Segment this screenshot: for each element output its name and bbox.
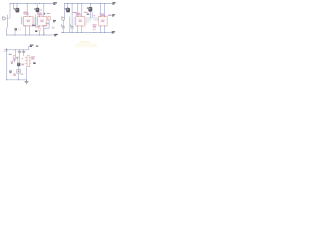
pink dot left of X1 mid BL <box>22 58 23 59</box>
resistor R3 TL right column <box>48 17 50 20</box>
capacitor C6 BL <box>16 57 18 58</box>
capacitor C4 BL <box>18 52 21 53</box>
wire vertical x18.6 to bottom BL <box>18 73 20 80</box>
pin dots U4 <box>100 16 105 26</box>
yellow smudge upper <box>79 41 90 43</box>
dark mark right of X1 <box>33 62 35 64</box>
source symbol V1 TL left <box>2 16 10 20</box>
pin stubs left of X1 <box>25 58 27 64</box>
wire vertical x63.2 lower TR <box>62 28 64 32</box>
transistor Q5 TL second blob <box>34 8 39 12</box>
wire vertical x14.4 below R5 BL <box>13 59 15 63</box>
text inside U3 <box>78 20 82 22</box>
label text pink mid-bottom TR <box>92 24 96 26</box>
label text pink right of Q2 <box>73 12 77 13</box>
text inside U2 <box>40 20 44 22</box>
text inside U1 <box>26 20 30 22</box>
pin stubs right of U2 <box>47 18 49 24</box>
wire vertical x90.5 TR <box>90 4 92 19</box>
capacitor C3 TR (plus mark) <box>70 25 74 28</box>
yellow smudge lower <box>75 44 98 48</box>
label text near R1 (pink) <box>23 24 28 27</box>
transistor Q3 TR <box>87 7 93 12</box>
ground symbol BL <box>25 80 29 84</box>
crystal / component box X1 BL (red vertical) <box>27 56 30 67</box>
wire bottom rail TL <box>7 34 54 36</box>
source symbol V2 TR left <box>61 16 64 20</box>
pin stubs between U3 and U4 <box>85 18 99 24</box>
wire vertical x37.2 TL <box>36 4 38 8</box>
transistor Q1 TL <box>14 8 19 13</box>
wire vertical x13 TL <box>12 4 14 10</box>
wire vertical x17.4 below C6 <box>16 59 18 63</box>
junction dots TR top rail <box>64 3 105 4</box>
wire vertical x7.3 from source down TL <box>6 15 8 28</box>
wire vertical x69.8 TR <box>69 17 71 33</box>
pink dot right of Q3 verticals <box>94 15 96 16</box>
transistor Q4 BL <box>17 63 20 67</box>
wire vertical x26.4 to bottom BL <box>25 67 27 80</box>
wire vertical x44 TL <box>43 4 45 17</box>
power flag TL bottom-right <box>54 34 58 36</box>
dark mark under R2 <box>35 30 37 32</box>
pink mark right of Y1 BL <box>21 74 23 75</box>
dark label left of Q3 verticals <box>87 14 90 15</box>
wire vertical x78 TR <box>77 4 79 17</box>
label text pink left of Q3 <box>84 12 88 13</box>
wire vertical x104.6 under U4 <box>104 26 106 33</box>
wire vertical x72 TR <box>71 4 73 27</box>
pin nubs right of X1 <box>30 58 31 64</box>
pink mark right of Q4 <box>21 64 24 66</box>
wire vertical x100.6 TR <box>100 4 102 17</box>
wire top rail BL <box>7 49 29 51</box>
wire vertical x25.5 under U1 <box>25 26 27 35</box>
label text U2 value (pink) above box U2 <box>37 13 42 16</box>
wire vertical x43.7 under U2 <box>43 26 45 35</box>
text inside U4 <box>101 20 105 22</box>
source symbol cross BL left <box>4 48 9 52</box>
pink label left of R5 <box>13 60 16 61</box>
wire vertical x17 TL <box>16 4 18 9</box>
small component blob TL mid-left <box>15 28 17 30</box>
junction dots TL top rail <box>9 3 44 4</box>
pin dots U2 <box>39 16 44 26</box>
wire vertical x82 TR <box>81 4 83 17</box>
IC box U4 TR <box>99 16 108 26</box>
label text U3 (pink) above box U3 <box>76 13 81 16</box>
IC box U3 TR <box>76 16 85 26</box>
small dark label right of BL flag <box>36 45 38 46</box>
wire vertical left x63 TR <box>62 20 64 26</box>
wire vertical x72.1 lower TR <box>71 28 73 32</box>
wire vertical x19.5 lower BL <box>19 53 21 63</box>
wire bus x21 down left of U1 <box>20 17 22 24</box>
wire vertical x64.5 TR <box>64 4 66 18</box>
capacitor C2 TR (plus mark) <box>61 25 65 28</box>
faint resistor hint TL <box>19 28 21 30</box>
label text above R2 (pink) <box>36 25 46 27</box>
wire top rail TL <box>10 3 53 5</box>
pink dot right of Q5 <box>40 9 42 10</box>
IC box U1 TL <box>24 16 33 26</box>
wire vertical x27 TL <box>26 4 28 17</box>
wire vertical x18.7 below Q4 BL <box>18 66 20 69</box>
wire vertical x77.4 under U3 <box>76 26 78 33</box>
wire left drop to bottom rail TL <box>6 28 8 36</box>
pin stubs left of U3 <box>73 18 75 24</box>
transistor Q2 TR <box>65 8 71 13</box>
faint label mark TL right column <box>52 27 55 29</box>
dark label under U1 <box>32 25 35 27</box>
wire bottom rail TR <box>62 32 112 34</box>
wire vertical x10 TL <box>9 4 11 19</box>
capacitor C5 BL <box>22 52 25 53</box>
wire vertical x23.5 lower BL <box>23 53 25 56</box>
wire vertical x49.1 right column TL <box>45 16 49 29</box>
junction dots BL top rail <box>15 49 24 50</box>
wire vertical x92.2 TR <box>91 12 93 17</box>
wire vertical x39.6 TL <box>39 14 41 17</box>
gray label above R5 BL <box>9 54 12 55</box>
resistor R5 BL <box>13 56 15 59</box>
junction dots TL bottom rail <box>6 34 44 35</box>
wire elbow right column to bottom TL <box>44 28 49 35</box>
junction dots TR bottom rail <box>61 32 105 33</box>
wire vertical x81.4 under U3 <box>80 26 82 33</box>
dark label left column BL <box>9 71 12 74</box>
power flag BL top <box>30 45 34 47</box>
wire vertical x15 to bottom rail TL <box>14 31 16 35</box>
IC box U2 TL <box>38 16 47 26</box>
wire vertical x15.3 BL <box>14 50 16 56</box>
wire vertical x100.6 under U4 <box>100 26 102 33</box>
resistor R4 TR <box>93 27 95 30</box>
label text U1 value (pink) above box U1 <box>23 12 29 15</box>
junction dots BL bottom rail <box>6 79 19 80</box>
power flag TR bottom-right <box>112 31 115 33</box>
wire riser to BL flag <box>29 46 30 49</box>
wire to mid flag TR <box>107 15 112 17</box>
dark label right of R3 <box>53 20 56 22</box>
power flag VCC TL top-right <box>53 2 57 5</box>
small dark label near U2 top <box>43 13 45 15</box>
wire vertical x39.3 to bottom rail TL <box>38 31 40 35</box>
label text U4 (pink) above box U4 <box>100 14 106 16</box>
pin dots U3 <box>77 16 82 26</box>
power flag mid TR <box>112 14 115 16</box>
wire top rail TR <box>65 3 113 5</box>
small component D1 BL <box>11 61 13 63</box>
pink marks lower-left BL <box>13 74 16 77</box>
resistor R2 TL (faint) <box>38 28 40 31</box>
pink text right of X1 <box>31 56 35 59</box>
wire vertical x104.6 TR <box>104 4 106 17</box>
wire vertical x35.3 gap TL <box>34 15 36 28</box>
small component Y1 BL <box>17 70 21 74</box>
label text above R3 right column (pink) <box>47 13 51 14</box>
wire vertical x23.5 BL <box>23 50 25 52</box>
wire vertical x19.5 BL <box>19 50 21 52</box>
wire vertical x67.5 TR <box>67 4 69 10</box>
power flag VCC TR top-right <box>112 2 115 4</box>
pin dots U1 <box>25 16 30 26</box>
wire bottom rail BL <box>7 79 27 81</box>
pin stubs left of U1 <box>21 18 23 24</box>
pin stubs between U1 and U2 <box>33 18 38 24</box>
wire vertical x29.5 under U1 <box>29 26 31 35</box>
wire vertical left x6.7 BL <box>6 50 8 80</box>
pink label left of mid flag TR <box>108 15 111 16</box>
